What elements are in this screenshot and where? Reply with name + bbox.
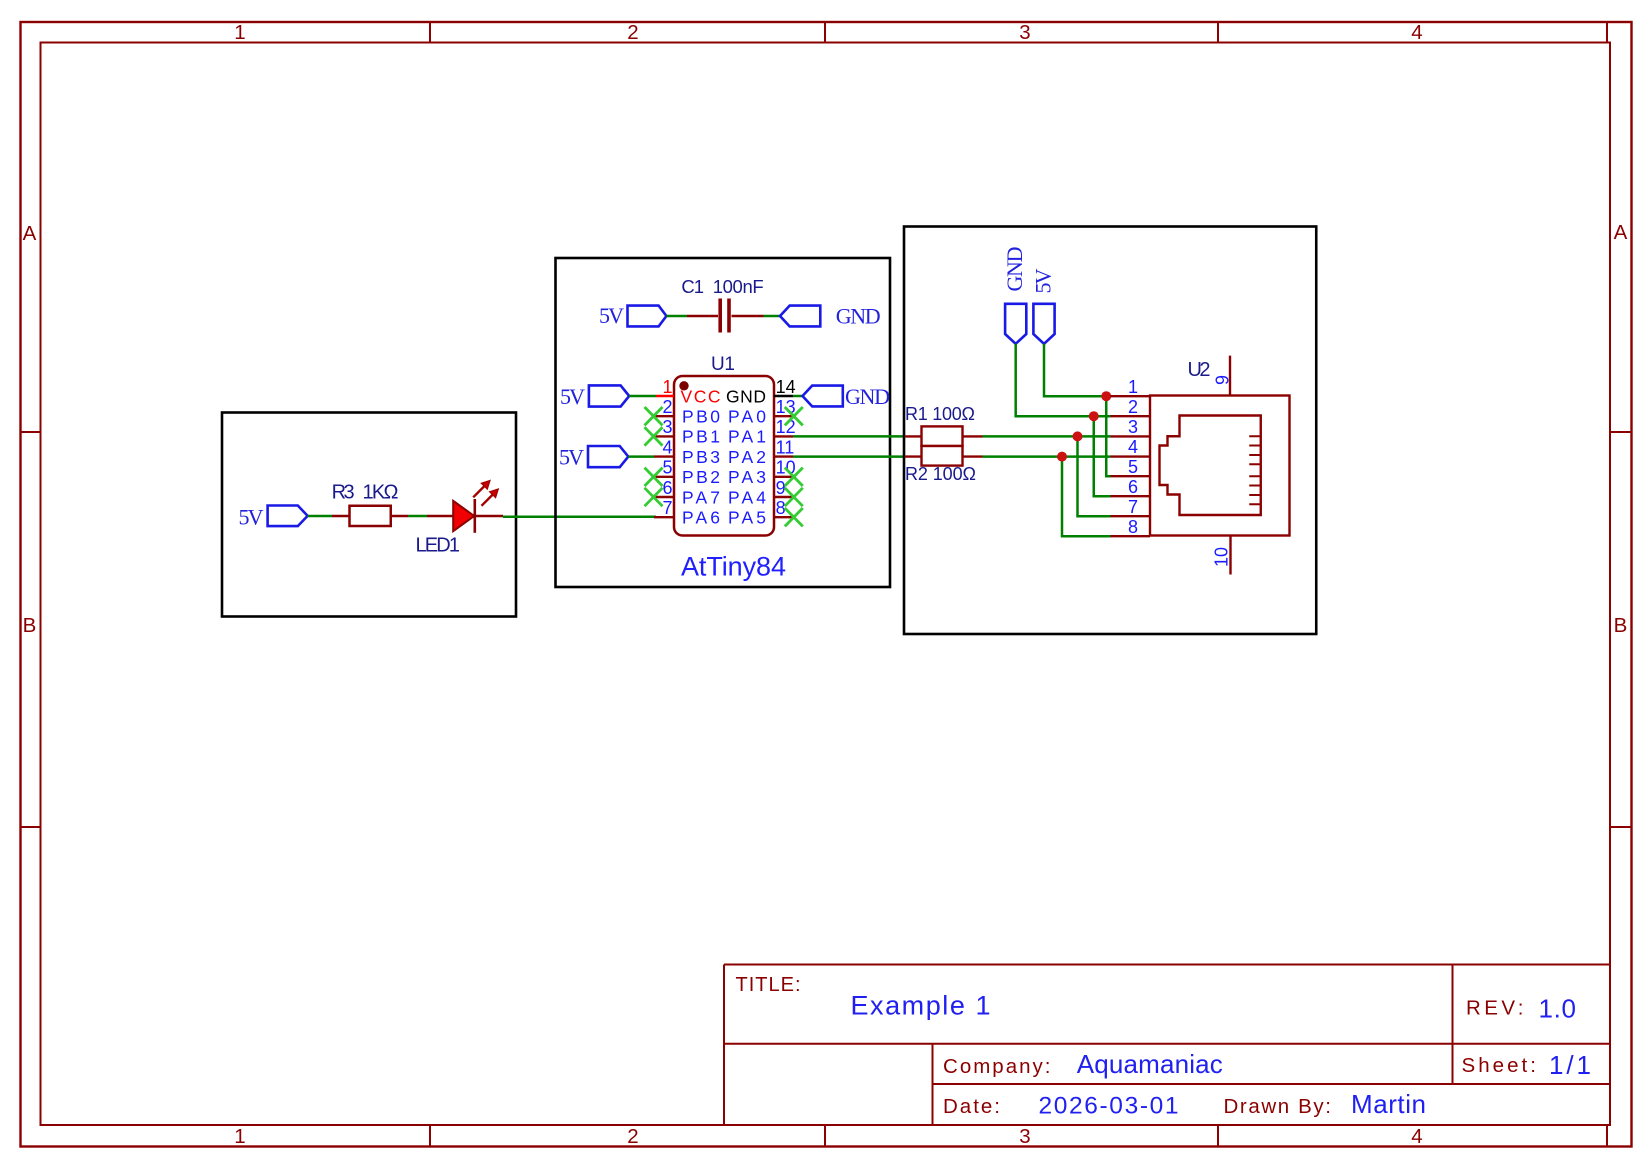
- svg-text:C1: C1: [681, 276, 704, 297]
- column ticks bottom: [429, 1125, 431, 1147]
- svg-text:8: 8: [776, 498, 786, 518]
- no-connect X marks left (pins 2,3,5,6): [645, 407, 663, 506]
- U1 pin names right column: [726, 386, 766, 527]
- wire R1 to pin 3: [983, 435, 1111, 438]
- svg-text:10: 10: [1212, 547, 1232, 567]
- pin 1 indicator dot: [679, 381, 688, 390]
- wire LED1 to U1 pin 7: [503, 516, 656, 519]
- svg-text:PB3: PB3: [682, 447, 720, 467]
- svg-text:U1: U1: [711, 354, 735, 375]
- svg-text:U2: U2: [1188, 359, 1211, 381]
- net flag 5V (U1 pin 1): [589, 385, 629, 406]
- svg-text:PA7: PA7: [682, 487, 720, 507]
- svg-text:9: 9: [1213, 375, 1233, 385]
- svg-text:B: B: [1614, 614, 1628, 637]
- resistor R2: [905, 446, 983, 466]
- wire 5V down and to pin 1: [1044, 344, 1111, 396]
- svg-text:1: 1: [234, 21, 245, 44]
- svg-text:Company:: Company:: [943, 1055, 1051, 1078]
- svg-text:Aquamaniac: Aquamaniac: [1077, 1049, 1223, 1079]
- svg-text:14: 14: [776, 377, 796, 397]
- connector U2 pin stubs 1-8: [1111, 396, 1151, 536]
- junction node PA2 at pin 4: [1057, 452, 1067, 462]
- svg-text:4: 4: [662, 437, 672, 457]
- wire 5V to U1 pin 4: [628, 455, 654, 458]
- svg-text:R3: R3: [332, 482, 355, 504]
- svg-text:VCC: VCC: [681, 386, 721, 406]
- wire U1 pin11 PA2 to R2: [793, 455, 905, 458]
- svg-text:8: 8: [1128, 517, 1138, 537]
- wire 5V to R3: [308, 515, 332, 518]
- svg-text:2: 2: [627, 1125, 638, 1148]
- pin 10 stub (bottom): [1229, 536, 1231, 575]
- svg-text:5V: 5V: [560, 384, 585, 409]
- no-connect X marks right (pins 13,10,9,8): [785, 407, 803, 526]
- wire 5V to C1: [666, 315, 687, 318]
- jack contact lines: [1249, 436, 1261, 504]
- wire U1 pin12 PA1 to R1: [793, 435, 905, 438]
- LED sub-circuit box: [222, 413, 516, 617]
- net flag GND (vertical, above connector): [1005, 304, 1026, 344]
- svg-text:Example 1: Example 1: [851, 991, 991, 1021]
- junction node PA1 at pin 3: [1073, 431, 1083, 441]
- svg-text:PB2: PB2: [682, 467, 720, 487]
- U1 pin stubs left: [654, 396, 674, 517]
- svg-text:1KΩ: 1KΩ: [363, 482, 399, 504]
- row ticks left: [21, 431, 41, 433]
- wire 5V to U1 pin 1: [629, 395, 656, 398]
- svg-text:100nF: 100nF: [713, 276, 764, 297]
- svg-text:3: 3: [662, 417, 672, 437]
- MCU sub-circuit box: [556, 258, 891, 587]
- svg-text:1.0: 1.0: [1539, 994, 1577, 1024]
- svg-text:TITLE:: TITLE:: [736, 974, 801, 996]
- column ticks top: [429, 22, 431, 43]
- svg-text:7: 7: [1128, 497, 1138, 517]
- svg-text:A: A: [1614, 221, 1628, 244]
- wire junction branch R2 to pin 8: [1062, 457, 1111, 537]
- net flag 5V (vertical, above connector): [1033, 304, 1054, 344]
- wire GND down and to pin 2: [1016, 344, 1111, 416]
- title block: [724, 965, 1610, 1126]
- svg-text:2: 2: [627, 21, 638, 44]
- svg-text:A: A: [23, 222, 37, 245]
- svg-text:6: 6: [1128, 477, 1138, 497]
- LED LED1: [427, 481, 503, 533]
- svg-text:9: 9: [776, 478, 786, 498]
- net flag 5V (C1 left): [628, 306, 667, 327]
- connector sub-circuit box: [904, 227, 1316, 635]
- U1 pin numbers left: [662, 377, 672, 518]
- svg-text:1: 1: [662, 377, 672, 397]
- wire U1 pin 14 to GND: [793, 395, 803, 398]
- net flag 5V (U1 pin 4): [588, 446, 628, 467]
- svg-text:7: 7: [662, 498, 672, 518]
- svg-text:1: 1: [234, 1125, 245, 1148]
- resistor R3: [332, 506, 408, 526]
- svg-text:5: 5: [662, 458, 672, 478]
- svg-text:PB0: PB0: [682, 407, 720, 427]
- net flag 5V (LED net): [268, 506, 308, 527]
- wire junction branch 5V to pin 5: [1106, 396, 1110, 476]
- svg-text:2: 2: [1128, 397, 1138, 417]
- row ticks right: [1610, 431, 1632, 433]
- svg-text:Martin: Martin: [1351, 1089, 1426, 1119]
- connector U2 pin numbers 1-8: [1128, 377, 1138, 537]
- svg-text:5V: 5V: [1031, 268, 1056, 293]
- wire R3 to LED1: [408, 515, 427, 518]
- svg-text:PA1: PA1: [728, 427, 766, 447]
- wire junction branch GND to pin 6: [1094, 416, 1111, 496]
- svg-text:R1 100Ω: R1 100Ω: [905, 404, 975, 424]
- svg-text:PA0: PA0: [728, 407, 766, 427]
- U1 pin names left column: [681, 386, 721, 527]
- wire C1 to GND: [764, 315, 781, 318]
- svg-text:PB1: PB1: [682, 427, 720, 447]
- ic U1 body: [674, 376, 774, 536]
- pin 9 stub (top): [1229, 356, 1231, 396]
- svg-text:LED1: LED1: [416, 535, 461, 557]
- svg-text:3: 3: [1128, 417, 1138, 437]
- svg-text:PA2: PA2: [728, 447, 766, 467]
- svg-text:PA6: PA6: [682, 508, 720, 528]
- svg-text:Drawn By:: Drawn By:: [1224, 1095, 1332, 1118]
- svg-text:3: 3: [1019, 21, 1030, 44]
- svg-text:GND: GND: [845, 384, 890, 409]
- svg-text:GND: GND: [836, 304, 881, 329]
- svg-text:GND: GND: [726, 386, 766, 406]
- svg-text:5V: 5V: [599, 303, 624, 328]
- svg-text:1/1: 1/1: [1549, 1050, 1591, 1080]
- svg-text:5: 5: [1128, 457, 1138, 477]
- net flag GND (C1 right): [780, 306, 820, 327]
- svg-text:6: 6: [662, 478, 672, 498]
- svg-text:Sheet:: Sheet:: [1462, 1054, 1537, 1077]
- U1 pin stubs right: [774, 396, 793, 517]
- svg-text:PA4: PA4: [728, 487, 766, 507]
- RJ45 jack outline: [1160, 416, 1261, 516]
- emission arrows: [473, 486, 484, 497]
- svg-text:PA3: PA3: [728, 467, 766, 487]
- svg-text:4: 4: [1411, 1125, 1422, 1148]
- svg-text:11: 11: [776, 437, 795, 457]
- svg-text:GND: GND: [1002, 247, 1027, 292]
- junction node GND at pin 2: [1089, 411, 1099, 421]
- svg-text:2026-03-01: 2026-03-01: [1039, 1093, 1179, 1120]
- wire junction branch R1 to pin 7: [1078, 436, 1111, 516]
- svg-text:4: 4: [1411, 21, 1422, 44]
- svg-text:B: B: [23, 614, 37, 637]
- wire R2 to pin 4: [983, 455, 1111, 458]
- svg-text:2: 2: [662, 397, 672, 417]
- svg-text:3: 3: [1019, 1125, 1030, 1148]
- svg-text:1: 1: [1128, 377, 1138, 397]
- connector U2 body: [1150, 396, 1290, 536]
- svg-text:PA5: PA5: [728, 508, 766, 528]
- junction node 5V at pin 1: [1101, 391, 1111, 401]
- net flag GND (U1 pin 14): [803, 386, 843, 407]
- svg-text:AtTiny84: AtTiny84: [681, 552, 786, 582]
- capacitor C1: [687, 299, 764, 333]
- svg-text:R2 100Ω: R2 100Ω: [905, 464, 976, 484]
- svg-text:12: 12: [776, 417, 796, 437]
- svg-text:5V: 5V: [239, 505, 264, 530]
- svg-text:5V: 5V: [559, 444, 584, 469]
- U1 pin numbers right: [776, 377, 796, 518]
- svg-text:4: 4: [1128, 437, 1138, 457]
